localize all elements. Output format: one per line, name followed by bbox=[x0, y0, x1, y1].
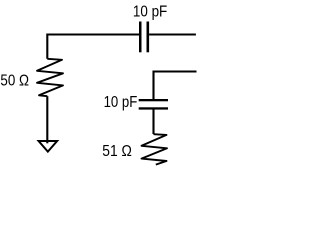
svg-text:10 pF: 10 pF bbox=[104, 94, 138, 111]
capacitor C2 top plate bbox=[139, 99, 168, 101]
svg-text:50 Ω: 50 Ω bbox=[0, 73, 29, 90]
capacitor C2 bottom plate bbox=[139, 107, 168, 109]
wire: C1 right plate to right edge bbox=[149, 33, 196, 35]
svg-text:51 Ω: 51 Ω bbox=[102, 142, 132, 160]
wire: C2 bottom plate down to R2 bbox=[152, 109, 154, 134]
wire: R1 bottom to ground bbox=[46, 96, 48, 143]
ground (open triangle arrowhead) bbox=[39, 141, 58, 152]
resistor R2 51 ohm zigzag (cut off at bottom edge of figure) bbox=[142, 134, 168, 164]
capacitor C1 left plate bbox=[139, 22, 142, 53]
capacitor C1 right plate bbox=[147, 22, 150, 53]
resistor R1 50 ohm zigzag bbox=[37, 59, 63, 96]
wire: top-left horizontal from corner node to C1 left plate bbox=[47, 35, 139, 59]
svg-text:10 pF: 10 pF bbox=[133, 3, 167, 20]
wire: mid-right horizontal + vertical down to C2 bbox=[154, 72, 197, 100]
